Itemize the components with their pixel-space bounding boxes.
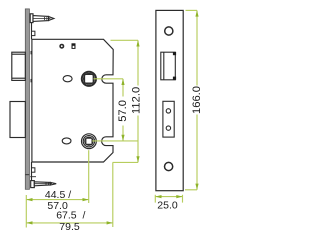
svg-text:166.0: 166.0: [191, 86, 203, 114]
svg-text:25.0: 25.0: [157, 199, 178, 211]
svg-text:112.0: 112.0: [130, 87, 142, 114]
svg-text:44.5 /: 44.5 /: [45, 189, 71, 201]
svg-text:57.0: 57.0: [117, 100, 129, 122]
svg-text:79.5: 79.5: [59, 221, 80, 233]
svg-text:67.5 /: 67.5 /: [56, 209, 85, 221]
